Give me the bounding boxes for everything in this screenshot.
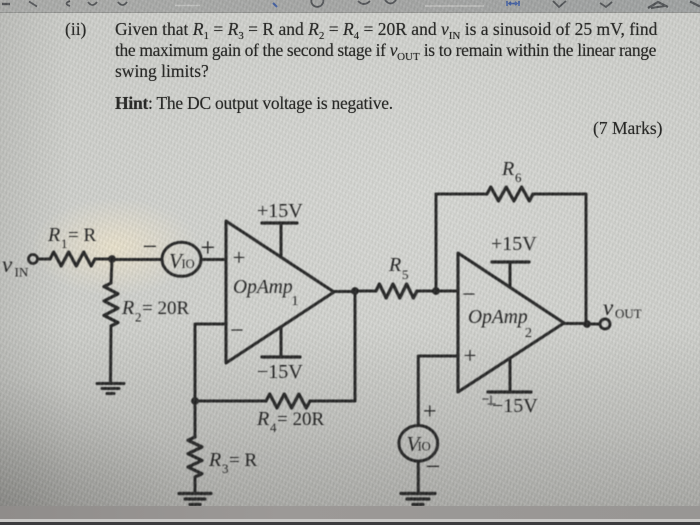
svg-text:= 20R: = 20R — [277, 409, 324, 430]
svg-text:4: 4 — [270, 420, 277, 435]
node D junction — [433, 288, 440, 295]
source VIO1 — [162, 242, 201, 276]
wire node B to R5 — [355, 290, 376, 293]
wire node B down to feedback R4 — [354, 291, 357, 401]
svg-text:IO: IO — [182, 257, 195, 271]
wire U1 output to node B — [334, 290, 355, 293]
question text — [65, 19, 86, 40]
wire VIO1 to U1 noninverting input — [201, 258, 226, 261]
svg-text:−15V: −15V — [257, 361, 303, 383]
svg-text:2: 2 — [525, 326, 532, 341]
wire node C to U1 inverting input — [195, 324, 226, 401]
wire node C down to R3 — [194, 401, 197, 437]
node vIN input terminal — [29, 255, 38, 264]
source VIO2 — [399, 426, 438, 462]
cursor artifact — [483, 396, 495, 405]
svg-text:v: v — [2, 252, 13, 277]
op-amp U1 — [226, 221, 334, 363]
svg-text:1: 1 — [292, 294, 299, 309]
node A junction — [109, 256, 116, 263]
wire R6 left lead — [436, 193, 487, 196]
svg-text:IN: IN — [15, 265, 29, 280]
svg-text:R: R — [256, 408, 269, 430]
svg-text:−: − — [143, 232, 158, 261]
svg-text:OUT: OUT — [615, 306, 642, 321]
svg-text:= R: = R — [229, 450, 257, 471]
wire node A down to R2 — [111, 259, 112, 283]
svg-text:R: R — [121, 297, 134, 319]
svg-text:3: 3 — [222, 461, 229, 476]
node B junction — [352, 288, 359, 295]
wire node E to vOUT terminal — [587, 323, 600, 326]
wire R4 left lead to node C — [195, 400, 266, 403]
ground G3 — [401, 494, 435, 505]
resistor R6 — [487, 187, 533, 201]
ground G2 — [179, 494, 211, 505]
toolbar remnant strip — [0, 0, 700, 13]
supply +15V U1 — [262, 223, 297, 255]
svg-text:R: R — [208, 449, 221, 471]
resistor R4 — [266, 394, 310, 408]
label R1 = R — [47, 224, 96, 251]
wire U2 noninverting input to VIO2 — [418, 356, 458, 425]
label OpAmp 2 — [468, 307, 532, 341]
wire R1 to node A — [95, 258, 112, 261]
op-amp U2 — [458, 253, 564, 392]
svg-text:= R: = R — [68, 225, 96, 246]
svg-text:v: v — [603, 295, 614, 320]
wire R2 to ground G1 — [109, 326, 113, 382]
svg-text:1: 1 — [61, 236, 68, 251]
wire node D up to R6 — [435, 194, 438, 291]
wire U2 output to node E — [564, 322, 587, 325]
supply -15V U2 — [488, 358, 531, 392]
resistor R5 — [376, 284, 417, 298]
ground G1 — [97, 384, 124, 394]
wire node A to VIO1 — [112, 258, 162, 261]
svg-text:+: + — [201, 233, 216, 262]
svg-text:R: R — [47, 224, 60, 246]
label R2 = 20R — [121, 297, 189, 325]
svg-text:−: − — [462, 282, 476, 308]
svg-text:+15V: +15V — [491, 233, 537, 255]
svg-text:+: + — [464, 343, 477, 368]
svg-text:R: R — [388, 254, 401, 276]
svg-text:6: 6 — [515, 170, 522, 185]
supply +15V U2 — [492, 262, 529, 287]
svg-text:= 20R: = 20R — [142, 298, 189, 319]
svg-text:5: 5 — [402, 267, 409, 282]
wire VIO2 to ground G3 — [417, 461, 420, 492]
label R3 = R — [208, 449, 257, 476]
wire R4 right lead — [310, 400, 355, 403]
node vOUT terminal — [600, 319, 610, 329]
wire R3 to ground G2 — [194, 477, 197, 492]
resistor R2 — [104, 283, 118, 326]
svg-text:R: R — [501, 158, 514, 180]
label R6 — [501, 158, 522, 185]
label vIN — [2, 252, 29, 280]
wire R6 right lead down to node E — [533, 194, 586, 324]
wire vIN terminal to R1 — [38, 258, 50, 261]
svg-text:+: + — [233, 245, 246, 270]
wire R5 to node D — [417, 290, 436, 293]
label R5 — [388, 254, 409, 282]
wire node D to U2 inverting input — [436, 290, 458, 293]
svg-text:OpAmp: OpAmp — [233, 277, 293, 298]
resistor R3 — [188, 437, 202, 477]
node E junction — [584, 321, 591, 328]
label VIO1 — [169, 249, 195, 273]
svg-text:−: − — [230, 318, 244, 344]
svg-text:+: + — [423, 399, 437, 425]
node C junction — [192, 398, 199, 405]
label OpAmp 1 — [233, 277, 299, 309]
svg-text:−: − — [426, 452, 441, 481]
svg-text:+15V: +15V — [257, 200, 303, 222]
supply -15V U1 — [262, 328, 300, 357]
svg-text:2: 2 — [135, 310, 142, 325]
svg-text:−15V: −15V — [492, 395, 538, 417]
label VIO2 — [407, 432, 431, 456]
label vOUT — [603, 295, 642, 321]
svg-text:OpAmp: OpAmp — [468, 307, 528, 328]
label R4 = 20R — [256, 408, 324, 435]
resistor R1 — [50, 252, 95, 266]
